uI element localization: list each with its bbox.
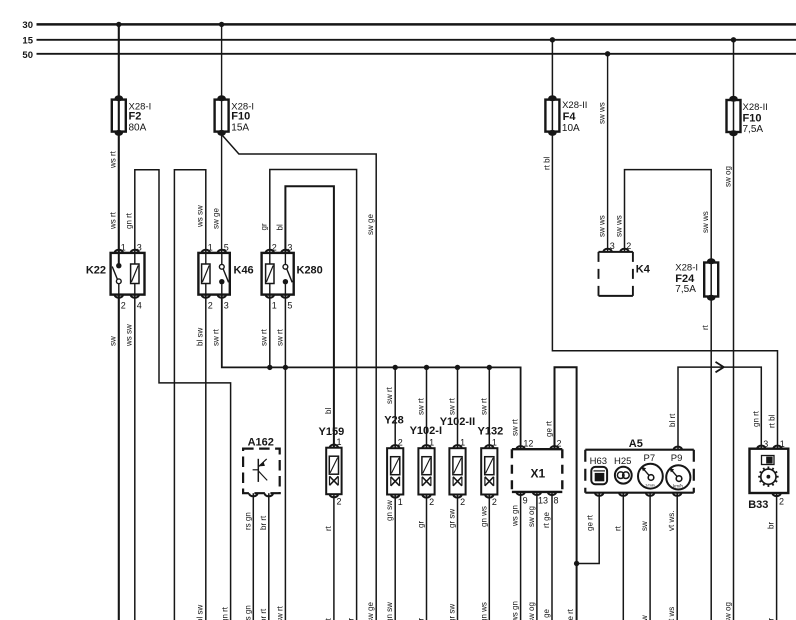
valve Y28 — [387, 448, 403, 494]
svg-text:B33: B33 — [748, 499, 768, 511]
svg-text:ge rt: ge rt — [566, 608, 575, 620]
svg-text:1: 1 — [121, 243, 126, 253]
svg-text:br rt: br rt — [259, 608, 268, 620]
svg-text:X28-II: X28-II — [562, 100, 587, 111]
wire B33 pin3 (gn rt) to A5 P9 (bl rt) — [678, 367, 761, 450]
speed sensor B33 — [750, 449, 789, 493]
svg-text:1: 1 — [398, 497, 403, 507]
junction sw-rt bus / Y28 — [393, 365, 398, 370]
svg-text:9: 9 — [523, 496, 528, 506]
svg-text:H63: H63 — [590, 456, 607, 467]
relay K280 — [262, 253, 294, 295]
svg-text:rt ge: rt ge — [542, 608, 551, 620]
wire K22 pin4 (ws sw) to bottom — [134, 295, 136, 620]
relay K46 — [198, 253, 229, 295]
svg-text:sw ge: sw ge — [366, 602, 375, 620]
svg-text:ws gn: ws gn — [511, 505, 520, 527]
svg-text:Y28: Y28 — [384, 414, 404, 426]
svg-text:gr sw: gr sw — [448, 509, 457, 528]
svg-text:A5: A5 — [629, 438, 643, 450]
wire K280 pin2 loop (gr) to bottom — [270, 170, 357, 620]
wire K22 pin2 (sw, bold) to bottom — [118, 295, 120, 620]
bus 15 line — [37, 39, 796, 41]
wire Y102-II pin2 (gr sw) to bottom — [457, 495, 459, 620]
svg-text:br rt: br rt — [259, 515, 268, 530]
svg-text:1: 1 — [272, 301, 277, 311]
svg-text:2: 2 — [121, 301, 126, 311]
svg-text:sw ge: sw ge — [366, 214, 375, 235]
svg-text:F10: F10 — [743, 112, 762, 124]
valve Y132 — [481, 448, 497, 494]
wire K22 pin3 loop (gn rt) down to bottom — [135, 170, 231, 620]
svg-text:gn ws: gn ws — [479, 506, 488, 527]
valve Y102-II — [449, 448, 465, 494]
fuse F10 X28-II 7,5A — [727, 100, 741, 132]
svg-text:2: 2 — [492, 497, 497, 507]
svg-text:ge rt: ge rt — [586, 514, 595, 531]
svg-text:ws sw: ws sw — [125, 324, 134, 347]
svg-text:Y102-I: Y102-I — [410, 425, 442, 437]
junction bus50/K4 — [605, 51, 610, 56]
wire Y132 pin2 (gn ws) to bottom — [488, 495, 490, 620]
svg-text:80A: 80A — [129, 122, 147, 133]
svg-text:sw ge: sw ge — [212, 208, 221, 229]
svg-text:sw rt: sw rt — [212, 328, 221, 346]
svg-text:3: 3 — [137, 243, 142, 253]
wire bus15 to F10-II (sw og) to bottom — [733, 40, 735, 620]
wire K280 pin1 (sw rt) — [269, 295, 271, 368]
relay K4 (dashed) — [599, 251, 633, 253]
wire K46 pin2 (bl sw) to bottom — [205, 295, 207, 620]
svg-text:1: 1 — [460, 438, 465, 448]
wire ge rt branch to A5 H63 — [577, 493, 600, 563]
wire bus50 to K4 pin3 (sw ws) — [607, 54, 609, 253]
svg-text:A162: A162 — [248, 437, 274, 449]
svg-text:sw rt: sw rt — [511, 418, 520, 436]
svg-text:30: 30 — [22, 20, 33, 31]
relay K22 — [111, 253, 145, 295]
wire bus15 to F4 (rt bl) to B33 pin1 — [552, 40, 777, 449]
wire Y28 pin1 (gn sw) to bottom — [394, 495, 396, 620]
svg-text:15A: 15A — [231, 122, 249, 133]
svg-text:P7: P7 — [644, 453, 656, 464]
svg-text:rt ge: rt ge — [542, 511, 551, 528]
svg-text:sw: sw — [109, 336, 118, 346]
svg-text:rs gn: rs gn — [243, 512, 252, 530]
svg-text:gn rt: gn rt — [751, 410, 760, 427]
svg-text:km/h: km/h — [673, 483, 683, 488]
svg-text:rt: rt — [613, 525, 622, 531]
junction sw-rt bus / Y102-II — [455, 365, 460, 370]
svg-text:bl: bl — [324, 408, 333, 414]
svg-text:2: 2 — [779, 497, 784, 507]
svg-text:8: 8 — [554, 496, 559, 506]
svg-text:2: 2 — [398, 438, 403, 448]
svg-text:3: 3 — [763, 439, 768, 449]
wire A162 pin (br rt) to bottom — [268, 493, 270, 620]
wire X1 pin8 (rt ge) to bottom — [551, 492, 553, 620]
wire A5 P7 (sw) to bottom — [649, 493, 651, 620]
svg-text:2: 2 — [429, 497, 434, 507]
svg-text:3: 3 — [610, 241, 615, 251]
svg-text:3: 3 — [287, 243, 292, 253]
svg-text:gn rt: gn rt — [221, 606, 230, 620]
svg-text:gn sw: gn sw — [385, 500, 394, 521]
svg-text:3: 3 — [224, 301, 229, 311]
svg-text:rt: rt — [701, 324, 710, 330]
svg-text:1: 1 — [337, 437, 342, 447]
svg-text:ws rt: ws rt — [109, 150, 118, 169]
svg-text:rs gn: rs gn — [243, 605, 252, 620]
svg-text:1: 1 — [780, 439, 785, 449]
svg-text:rt bl: rt bl — [542, 156, 551, 170]
svg-text:sw: sw — [640, 521, 649, 531]
svg-text:F2: F2 — [129, 111, 142, 123]
svg-text:12: 12 — [523, 439, 533, 449]
junction bus15/F10-II — [731, 37, 736, 42]
svg-text:rt: rt — [324, 525, 333, 531]
svg-text:sw og: sw og — [527, 506, 536, 527]
svg-text:X1: X1 — [531, 467, 546, 481]
wire X1 pin9 (ws gn) to bottom — [520, 492, 522, 620]
svg-text:bl sw: bl sw — [196, 328, 205, 346]
svg-text:sw rt: sw rt — [385, 386, 394, 404]
svg-text:H25: H25 — [614, 456, 631, 467]
svg-text:7,5A: 7,5A — [675, 284, 696, 295]
svg-text:5: 5 — [287, 301, 292, 311]
svg-text:F4: F4 — [563, 111, 577, 123]
junction sw-rt bus / Y102-I — [424, 365, 429, 370]
svg-text:sw rt: sw rt — [275, 605, 284, 620]
svg-text:ws sw: ws sw — [196, 205, 205, 228]
svg-text:rt bl: rt bl — [768, 414, 777, 428]
svg-text:1: 1 — [208, 243, 213, 253]
svg-text:P9: P9 — [671, 453, 683, 464]
svg-text:sw: sw — [640, 615, 649, 620]
wire sw rt to Y132 — [488, 367, 490, 448]
svg-text:2: 2 — [272, 243, 277, 253]
svg-text:7,5A: 7,5A — [743, 124, 764, 135]
svg-text:vt ws.: vt ws. — [667, 511, 676, 531]
wire K280 pin3 loop (bl, bold) to Y159 — [285, 186, 334, 448]
svg-text:4: 4 — [137, 301, 142, 311]
svg-text:13: 13 — [538, 496, 548, 506]
wire K280 pin5 (sw rt) to bottom — [284, 295, 286, 620]
svg-text:K46: K46 — [234, 265, 254, 277]
svg-text:gr: gr — [417, 521, 426, 528]
wire F10 diagonal branch (sw ge) to bottom — [222, 135, 377, 620]
wire B33 pin2 (br) to bottom — [776, 493, 778, 620]
junction bus15/F4 — [550, 37, 555, 42]
svg-text:ge rt: ge rt — [545, 420, 554, 437]
svg-text:sw rt: sw rt — [448, 397, 457, 415]
svg-text:sw ws: sw ws — [701, 211, 710, 233]
svg-text:Y102-II: Y102-II — [440, 416, 475, 428]
svg-text:bl: bl — [275, 224, 284, 230]
svg-text:X28-I: X28-I — [675, 262, 698, 273]
svg-text:1: 1 — [492, 438, 497, 448]
connector X1 — [512, 448, 562, 450]
svg-text:K22: K22 — [86, 265, 106, 277]
fuse F24 X28-I 7,5A — [704, 263, 718, 297]
wire Y159 pin2 (rt) to bottom — [333, 494, 335, 620]
svg-text:2: 2 — [557, 439, 562, 449]
svg-text:vt ws: vt ws — [667, 607, 676, 620]
svg-text:2: 2 — [626, 241, 631, 251]
svg-text:sw og: sw og — [724, 602, 733, 620]
svg-text:2: 2 — [208, 301, 213, 311]
A162 transistor symbol — [257, 459, 259, 482]
svg-text:bl rt: bl rt — [668, 413, 677, 427]
fuse F10 X28-I 15A — [215, 100, 229, 132]
wire K46 pin1 loop (ws sw) from bottom — [174, 170, 205, 620]
B33 sensor element — [762, 456, 775, 465]
wire X1 pin13 (sw og) to bottom — [536, 492, 538, 620]
wire X1 pin2 (ge rt, bold) to bottom — [555, 367, 577, 620]
wire Y102-I pin2 (gr) to bottom — [426, 495, 428, 620]
svg-text:sw rt: sw rt — [275, 328, 284, 346]
svg-text:sw rt: sw rt — [260, 328, 269, 346]
wire sw rt to Y102-I — [426, 367, 428, 448]
valve Y159 — [326, 448, 341, 495]
junction sw-rt bus / Y132 — [487, 365, 492, 370]
svg-text:sw rt: sw rt — [417, 397, 426, 415]
svg-text:br: br — [767, 522, 776, 529]
svg-text:sw og: sw og — [724, 166, 733, 187]
wire K46 pin3 (sw rt) distribution bus to X1 pin12 — [222, 295, 521, 450]
junction bus30/F10 — [219, 22, 224, 27]
wire bus30 to F10 to K46 pin5 (sw ge) — [221, 24, 223, 253]
svg-text:ws gn: ws gn — [511, 601, 520, 620]
wire A5 H25 (rt) to bottom — [622, 493, 624, 620]
fuse F2 X28-I 80A — [112, 100, 126, 132]
svg-text:Y132: Y132 — [478, 425, 504, 437]
svg-text:2: 2 — [337, 497, 342, 507]
svg-text:sw ws: sw ws — [598, 215, 607, 237]
svg-text:1: 1 — [429, 438, 434, 448]
svg-text:bl sw: bl sw — [196, 605, 205, 620]
junction sw-rt bus / K280 pin1 — [267, 365, 272, 370]
svg-text:gn rt: gn rt — [125, 212, 134, 229]
junction ge rt branch — [574, 561, 579, 566]
svg-text:gr: gr — [260, 223, 269, 230]
wire K4 pin2 loop (sw ws) to F24 — [625, 170, 712, 620]
svg-text:5: 5 — [224, 243, 229, 253]
wire A162 pin (rs gn) to bottom — [252, 493, 254, 620]
svg-text:sw ws: sw ws — [615, 215, 624, 237]
bus 30 line — [37, 23, 796, 26]
svg-text:ws rt: ws rt — [109, 211, 118, 230]
control unit A162 (dashed) — [243, 449, 280, 494]
svg-text:gn ws: gn ws — [479, 602, 488, 620]
svg-text:K280: K280 — [297, 265, 323, 277]
junction sw-rt bus / K280 pin5 — [283, 365, 288, 370]
svg-text:15: 15 — [22, 36, 33, 47]
wire sw rt to Y28 — [394, 367, 396, 448]
svg-text:gr sw: gr sw — [448, 604, 457, 620]
svg-text:sw rt: sw rt — [479, 397, 488, 415]
wire bus30 to F2 to K22 pin1 (ws rt, bold) — [118, 24, 120, 253]
svg-text:sw ws: sw ws — [598, 102, 607, 124]
svg-text:K4: K4 — [636, 264, 651, 276]
valve Y102-I — [418, 448, 434, 494]
svg-text:F10: F10 — [231, 111, 250, 123]
signal direction arrow — [716, 362, 724, 367]
bus 50 line — [37, 53, 796, 55]
svg-text:gn sw: gn sw — [385, 602, 394, 620]
instrument cluster A5 — [585, 449, 694, 451]
wire sw rt to Y102-II — [457, 367, 459, 448]
junction bus30/F2 — [116, 22, 121, 27]
svg-text:50: 50 — [22, 50, 33, 61]
svg-text:2: 2 — [460, 497, 465, 507]
B33 gear wheel — [758, 467, 778, 487]
svg-text:10A: 10A — [562, 123, 580, 134]
fuse F4 X28-II 10A — [545, 100, 559, 132]
svg-text:sw og: sw og — [527, 602, 536, 620]
svg-text:1/min: 1/min — [645, 482, 655, 487]
svg-text:Y159: Y159 — [319, 426, 345, 438]
wire A5 P9 (vt ws) to bottom — [676, 493, 678, 620]
